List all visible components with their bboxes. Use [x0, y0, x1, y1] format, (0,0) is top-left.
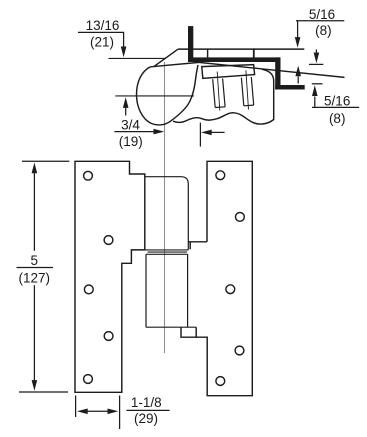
dim 13/16 up arrow shaft — [125, 106, 127, 116]
upper knuckle — [145, 177, 189, 250]
left leaf outline — [75, 161, 145, 392]
dim line L2 — [312, 83, 323, 85]
pintle step block — [181, 327, 196, 337]
dim 5/16 top down arrow — [295, 37, 301, 48]
knuckle top edge line — [151, 62, 200, 66]
pin center horizontal line — [115, 95, 194, 97]
frame stop thick vertical bar — [188, 26, 193, 59]
frame stop thick top bar — [188, 57, 281, 62]
knuckle teardrop outline — [136, 65, 197, 125]
dim 3/4 line — [114, 131, 162, 133]
door face extension line — [199, 123, 201, 147]
dim 5 up arrow — [32, 163, 38, 174]
frame plate right edge — [253, 48, 255, 57]
svg-text:(8): (8) — [315, 23, 332, 38]
centerline of hinge pin — [164, 62, 166, 353]
dim 1-1/8 left arrow — [77, 409, 88, 415]
right leaf hole 1 — [216, 171, 225, 180]
left leaf hole 3 — [84, 285, 93, 294]
right leaf hole 5 — [216, 377, 225, 386]
dim 5 extension top — [22, 160, 69, 162]
dim 13/16 down arrow — [121, 47, 127, 58]
left leaf hole 1 — [84, 171, 93, 180]
dim left arrow — [201, 130, 212, 136]
left leaf hole 2 — [104, 236, 113, 245]
dim 5 vertical line — [33, 170, 35, 251]
dim 3/4 right arrow — [154, 129, 165, 135]
dim 5/16 top leader shaft — [297, 21, 299, 39]
screw 1 — [213, 72, 225, 111]
upper knuckle bottom edge — [131, 249, 188, 251]
svg-text:13/16: 13/16 — [86, 18, 120, 33]
door face slant line — [199, 62, 345, 77]
svg-text:5/16: 5/16 — [324, 94, 350, 109]
dim 1-1/8 right arrow — [108, 409, 119, 415]
dim 5 underline — [17, 267, 54, 269]
frame face line — [109, 57, 167, 59]
svg-text:5: 5 — [31, 253, 39, 268]
dim 13/16 leader — [78, 32, 124, 48]
dim up arrow under L1 — [297, 77, 299, 84]
dim left arrow shaft — [211, 131, 225, 133]
dim 1-1/8 extension left — [75, 396, 77, 418]
mortise plate strip in door — [202, 65, 255, 79]
svg-text:(19): (19) — [119, 134, 143, 149]
dim 1-1/8 underline — [126, 409, 169, 411]
wedge slant (leaf wrap to frame) — [154, 49, 178, 67]
svg-text:(21): (21) — [90, 35, 114, 50]
dim 1-1/8 double arrow line — [80, 410, 115, 412]
frame stop thick right vertical — [275, 57, 280, 89]
dim 1-1/8 extension right — [119, 396, 121, 430]
svg-text:(29): (29) — [134, 411, 158, 426]
right leaf hole 4 — [235, 346, 244, 355]
dim 5 extension bottom — [19, 391, 68, 393]
svg-text:5/16: 5/16 — [309, 7, 335, 22]
right leaf hole 3 — [226, 285, 235, 294]
lower knuckle — [146, 254, 196, 327]
screw 2 — [241, 70, 253, 109]
dim 5/16 lower underline — [312, 106, 359, 108]
svg-text:3/4: 3/4 — [121, 118, 140, 133]
frame plate left edge — [207, 49, 209, 58]
dim 5 down arrow — [32, 380, 38, 391]
svg-text:(8): (8) — [329, 111, 346, 126]
dim up arrow under L2 — [314, 97, 316, 108]
top horizontal frame rabbet line — [178, 48, 304, 50]
knuckle joint line — [148, 251, 188, 253]
left leaf hole 4 — [104, 332, 113, 341]
dim line L1 — [309, 63, 323, 65]
right leaf outline — [196, 161, 252, 395]
dim 5/16 top underline — [296, 20, 344, 22]
svg-text:(127): (127) — [19, 270, 51, 285]
left leaf hole 5 — [84, 375, 93, 384]
frame stop thick bottom bar — [275, 85, 305, 90]
right leaf knuckle notch — [188, 242, 207, 249]
door edge outline with break line — [173, 69, 274, 124]
svg-text:1-1/8: 1-1/8 — [131, 395, 162, 410]
right leaf hole 2 — [236, 213, 245, 222]
dim down arrow at L1 — [315, 50, 317, 54]
dim 13/16 up arrow — [123, 97, 129, 108]
